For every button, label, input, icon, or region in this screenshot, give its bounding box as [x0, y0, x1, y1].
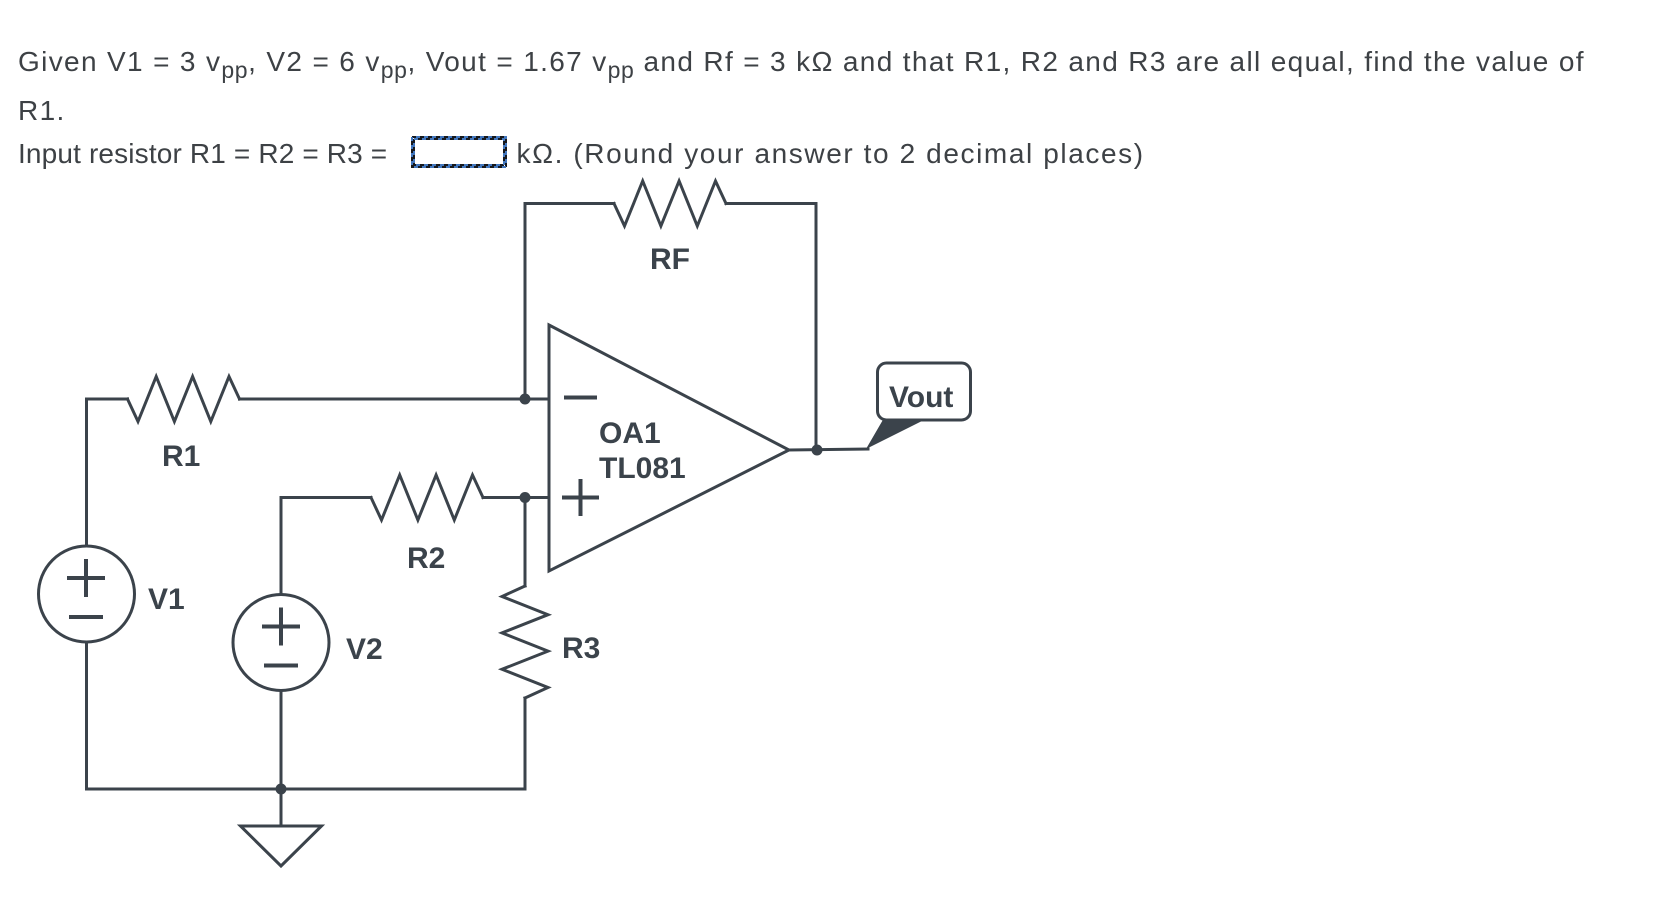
op-amp non-inverting input plus sign — [564, 481, 597, 514]
op-amp OA1 triangle — [549, 325, 789, 571]
svg-text:OA1: OA1 — [599, 417, 661, 450]
wire: ground rail bottom — [87, 788, 526, 791]
question text line 1 — [18, 48, 1585, 84]
wire: V1 bottom to ground rail — [85, 642, 88, 789]
wire: feedback loop up over RF — [525, 204, 614, 400]
wire: op-amp output — [789, 449, 868, 450]
wire: non-inverting node down to R3 — [524, 498, 527, 587]
ground stub — [280, 789, 283, 826]
svg-text:RF: RF — [650, 243, 690, 276]
node: inverting input junction — [520, 394, 531, 405]
question text line 3 with answer input box — [18, 136, 1145, 168]
svg-text:V2: V2 — [346, 633, 383, 666]
svg-text:V1: V1 — [148, 583, 185, 616]
ground symbol triangle — [241, 826, 322, 866]
Vout callout box — [878, 363, 971, 420]
wire: R3 bottom to ground rail — [524, 698, 527, 789]
wire: V2 bottom to ground rail — [280, 691, 283, 790]
source V2 — [233, 595, 329, 691]
wire: V1 left branch vertical — [87, 399, 128, 546]
resistor R3 — [502, 586, 548, 698]
source V1 — [39, 546, 135, 642]
svg-text:R3: R3 — [562, 632, 600, 665]
resistor R2 — [371, 475, 483, 520]
node: output junction — [812, 445, 823, 456]
node: non-inverting input junction — [520, 492, 531, 503]
svg-text:R2: R2 — [407, 542, 445, 575]
Vout callout tail — [866, 418, 922, 449]
resistor R1 — [128, 377, 240, 422]
op-amp inverting input minus sign — [566, 396, 595, 400]
node: ground junction — [276, 784, 287, 795]
resistor RF — [614, 181, 726, 226]
wire: R1 right to inverting node — [240, 398, 550, 401]
svg-text:TL081: TL081 — [599, 452, 686, 485]
wire: R2 right to non-inverting node — [483, 496, 549, 499]
question text line 2 — [18, 97, 66, 125]
svg-text:Vout: Vout — [889, 381, 953, 414]
svg-text:R1: R1 — [162, 440, 200, 473]
wire: V2 branch corner to R2 — [281, 498, 371, 595]
wire: RF right side down to output — [726, 204, 816, 451]
